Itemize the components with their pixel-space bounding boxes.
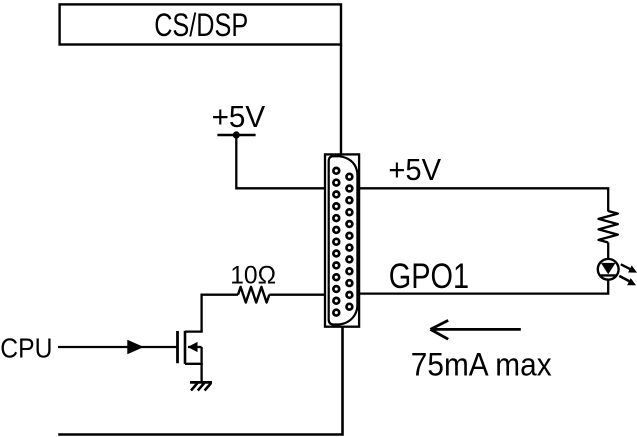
LED D1 [598,259,637,285]
current direction arrow [430,320,520,339]
wire connector GPO1 pin to resistor [269,294,325,296]
wire source to ground [200,364,202,383]
svg-text:75mA max: 75mA max [411,346,552,382]
wire CS/DSP to connector top [340,44,342,155]
ground [190,382,212,390]
wire +5V net to resistor [359,188,608,211]
wire LED to GPO1 pin [359,280,608,294]
svg-text:10Ω: 10Ω [230,262,276,290]
label CPU [0,332,52,363]
wire resistor to LED [607,243,609,260]
svg-text:+5V: +5V [388,152,441,187]
wire connector bottom return [58,327,342,435]
label 10 ohm [230,262,276,290]
transistor Q1 NMOS [178,331,203,364]
wire CPU gate input with arrow [58,340,178,354]
power +5V supply symbol [212,99,266,139]
svg-text:CPU: CPU [0,332,52,363]
block CS/DSP [60,4,341,44]
label +5V pin [388,152,441,187]
wire resistor to MOSFET drain [202,295,238,332]
wire +5V supply to connector [236,135,325,188]
svg-text:GPO1: GPO1 [389,257,469,296]
resistor R1 10 ohm (horizontal) [238,287,269,303]
svg-text:CS/DSP: CS/DSP [154,7,248,43]
label GPO1 [389,257,469,296]
connector J1 DB-25 [325,154,359,326]
svg-text:+5V: +5V [212,99,266,134]
resistor R2 (LED series, vertical) [599,211,618,243]
label 75mA max [411,346,552,382]
